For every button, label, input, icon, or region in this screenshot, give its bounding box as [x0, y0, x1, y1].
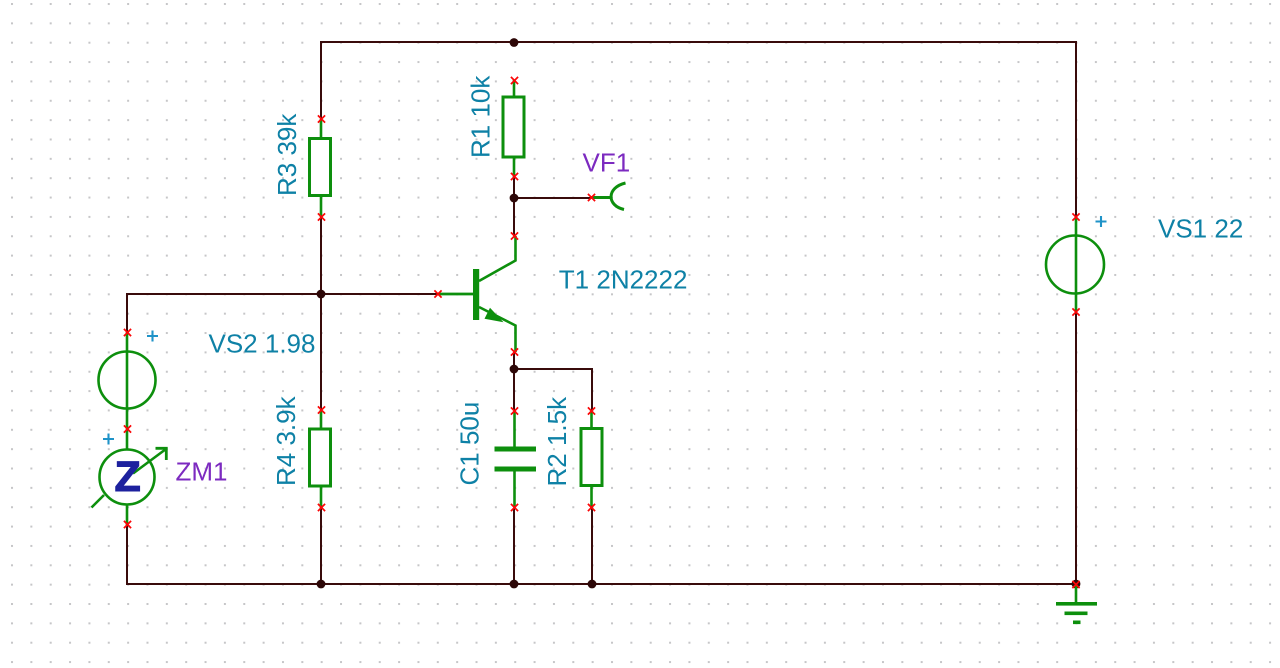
- wire left top (base corner down to VS2 plus pin): [126, 293, 128, 332]
- pin x R4 top: [318, 406, 325, 413]
- svg-text:ZM1: ZM1: [176, 457, 228, 487]
- svg-text:R3 39k: R3 39k: [272, 113, 302, 196]
- pin x VS1 bottom: [1072, 308, 1079, 315]
- ground: [1056, 584, 1097, 624]
- pin x VS1 top: [1072, 213, 1079, 220]
- wire top-right segment (junction to VS1 top): [514, 42, 1076, 217]
- voltage pin VF1: [592, 183, 626, 210]
- plus sign ZM1: [103, 434, 114, 445]
- wire top-left segment (R3 top to R1 top junction): [321, 42, 514, 119]
- pin x R4 bottom: [318, 504, 325, 511]
- pin x marks (red crosses): [124, 77, 1080, 588]
- pin x R1 bottom: [511, 173, 518, 180]
- wire R4 top (base junction to R4 pin): [320, 294, 322, 410]
- svg-text:C1 50u: C1 50u: [455, 402, 485, 486]
- pin x R1 top: [511, 77, 518, 84]
- pin x VF1: [588, 194, 595, 201]
- wire base (left wire to transistor base pin): [127, 293, 438, 295]
- wire R2 branch: [514, 369, 592, 410]
- wire C1 top: [513, 369, 515, 410]
- junction bottom C1: [510, 580, 519, 589]
- junction bottom R2: [588, 580, 597, 589]
- pin x ground junction: [1072, 581, 1079, 588]
- pin x R3 bottom: [318, 213, 325, 220]
- svg-text:VS2 1.98: VS2 1.98: [209, 329, 316, 359]
- wire left bottom (ZM1 minus down and bottom rail): [127, 525, 1076, 584]
- wire C1 bottom: [513, 508, 515, 584]
- junction emitter / C1 / R2: [510, 365, 519, 374]
- svg-text:R4 3.9k: R4 3.9k: [271, 395, 301, 486]
- junction R1 bottom / VF1: [510, 194, 519, 203]
- junction top R1: [510, 38, 519, 47]
- capacitor C1: [495, 411, 537, 508]
- resistor R4: [310, 410, 331, 508]
- resistor R2: [581, 411, 602, 508]
- pin x base: [434, 290, 441, 297]
- pin x C1 top: [511, 407, 518, 414]
- wire VS1 bottom: [1075, 312, 1077, 584]
- plus sign VS1: [1096, 216, 1107, 227]
- svg-text:T1 2N2222: T1 2N2222: [559, 265, 688, 295]
- junction bottom R4: [317, 580, 326, 589]
- wire R4 bottom: [320, 508, 322, 584]
- wire R1 bottom to collector pin: [513, 176, 515, 236]
- pin x ZM1 bottom: [124, 521, 131, 528]
- transistor T1: [438, 236, 516, 352]
- svg-text:R1 10k: R1 10k: [466, 75, 496, 158]
- wire VF1 (junction to probe pin): [514, 197, 591, 199]
- resistor R1: [503, 80, 524, 177]
- junction bottom ground: [1072, 580, 1081, 589]
- wire emitter to junction: [513, 352, 515, 369]
- svg-text:VS1 22: VS1 22: [1158, 214, 1243, 244]
- svg-text:R2 1.5k: R2 1.5k: [542, 396, 572, 487]
- pin x VS2 top: [124, 329, 131, 336]
- pin x R3 top: [318, 115, 325, 122]
- pin x R2 bottom: [588, 504, 595, 511]
- junction base R3/R4: [317, 290, 326, 299]
- voltage source VS1: [1046, 217, 1104, 312]
- svg-text:Z: Z: [115, 453, 141, 501]
- wire R2 bottom: [591, 508, 593, 584]
- impedance meter ZM1: [92, 429, 167, 525]
- pin x emitter: [511, 348, 518, 355]
- resistor R3: [310, 119, 331, 217]
- svg-text:VF1: VF1: [583, 148, 631, 178]
- pin x R2 top: [588, 407, 595, 414]
- pin x C1 bottom: [511, 504, 518, 511]
- pin x VS2 bottom / ZM1 top: [124, 425, 131, 432]
- plus sign VS2: [147, 331, 158, 342]
- pin x collector: [511, 232, 518, 239]
- voltage source VS2: [99, 332, 156, 429]
- wire R3 bottom to base junction: [320, 217, 322, 294]
